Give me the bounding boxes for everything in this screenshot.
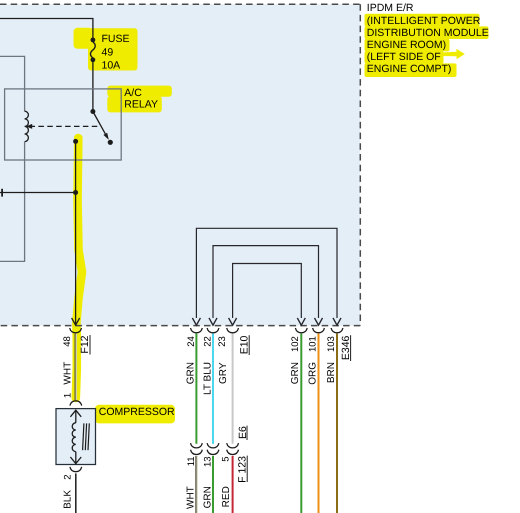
label F12 <box>79 335 91 355</box>
relay linkage (dashed) <box>26 124 99 129</box>
pin 102 <box>290 336 301 352</box>
wire WHT: F12 to compressor pin 1 <box>75 334 76 401</box>
pin 22 <box>202 336 213 347</box>
svg-text:ENGINE ROOM): ENGINE ROOM) <box>367 39 446 51</box>
label WHT <box>186 486 197 509</box>
svg-text:ENGINE COMPT): ENGINE COMPT) <box>367 63 452 75</box>
wire: relay coil return to left <box>0 142 25 262</box>
svg-text:BLK: BLK <box>63 490 74 509</box>
junction node <box>73 190 78 195</box>
wire: supply feed to fuse 49 <box>0 19 93 38</box>
svg-text:DISTRIBUTION MODULE: DISTRIBUTION MODULE <box>367 27 489 39</box>
svg-text:WHT: WHT <box>63 362 74 385</box>
compressor clutch coil <box>72 423 76 452</box>
pin 2 <box>63 475 74 480</box>
label E346 <box>340 335 352 361</box>
relay box (A/C relay) <box>5 89 122 160</box>
svg-text:IPDM E/R: IPDM E/R <box>367 2 414 14</box>
label GRN <box>202 486 213 508</box>
pin 1 <box>63 393 74 398</box>
highlight: A/C RELAY label <box>107 86 172 113</box>
relay switch <box>73 109 113 145</box>
svg-text:22: 22 <box>202 336 213 347</box>
svg-text:5: 5 <box>220 456 231 461</box>
connector E6 <box>191 443 239 448</box>
label ORG <box>307 362 318 385</box>
label FUSE 49 10A <box>102 33 130 72</box>
wire: IPDM trace pin 24 to pin 103 <box>196 228 337 318</box>
diode terminal at left edge <box>1 189 3 197</box>
svg-text:WHT: WHT <box>186 486 197 509</box>
wire: IPDM trace pin 23 to pin 102 <box>233 264 302 319</box>
svg-text:BRN: BRN <box>326 362 337 383</box>
highlight: FUSE label <box>74 28 138 71</box>
wire: relay coil feed from left <box>0 56 25 111</box>
wire ORG (pin 101) <box>318 334 320 513</box>
svg-text:ORG: ORG <box>307 362 318 385</box>
highlight: IPDM description text <box>365 14 489 77</box>
svg-text:GRN: GRN <box>186 362 197 384</box>
svg-text:49: 49 <box>102 46 114 58</box>
wire RED (pin 5) <box>232 456 234 513</box>
arrows into IPDM boundary (pins 24,22,23,102,101,103) <box>192 318 341 325</box>
pin 5 <box>220 456 231 461</box>
svg-text:FUSE: FUSE <box>102 33 130 45</box>
svg-text:48: 48 <box>62 336 73 347</box>
svg-text:101: 101 <box>307 336 318 352</box>
pin 103 <box>326 336 337 352</box>
connector: compressor pin 1 <box>70 401 82 406</box>
IPDM E/R box dashed border <box>0 4 360 325</box>
svg-text:LT BLU: LT BLU <box>202 362 213 395</box>
wire: IPDM trace pin 22 to pin 101 <box>213 246 319 318</box>
svg-text:102: 102 <box>290 336 301 352</box>
label GRN (right) <box>290 362 301 384</box>
pin 11 <box>186 456 197 466</box>
connector: compressor pin 2 <box>70 467 82 472</box>
label GRY <box>218 362 229 384</box>
wire LT BLU (pin 22) <box>212 334 214 444</box>
svg-text:103: 103 <box>326 336 337 352</box>
svg-text:E10: E10 <box>238 335 250 354</box>
wire BRN (pin 103) <box>336 334 338 513</box>
svg-text:2: 2 <box>63 475 74 480</box>
label F 123 <box>236 456 248 483</box>
pin 24 <box>186 336 197 347</box>
svg-text:RED: RED <box>221 486 232 507</box>
svg-text:(INTELLIGENT POWER: (INTELLIGENT POWER <box>367 15 481 27</box>
label A/C RELAY <box>124 87 158 111</box>
pin 48 <box>62 336 73 347</box>
compressor input arrow <box>70 410 81 423</box>
wire GRN (pin 13) <box>212 456 214 513</box>
svg-text:10A: 10A <box>102 60 121 72</box>
label E6 <box>237 426 249 440</box>
arrow into IPDM boundary (pin 48) <box>72 318 80 325</box>
compressor hatch marks <box>83 423 90 450</box>
highlight: COMPRESSOR label <box>95 405 175 424</box>
fuse 49 10A <box>91 38 96 63</box>
highlight: traced wire relay to compressor <box>76 138 82 398</box>
wire WHT (pin 11) <box>196 456 197 513</box>
wire: left edge to junction <box>0 192 76 194</box>
connector E10 <box>191 328 239 333</box>
svg-text:GRN: GRN <box>290 362 301 384</box>
svg-text:RELAY: RELAY <box>124 99 158 111</box>
wire: fuse to relay switch common <box>92 62 94 112</box>
svg-text:F 123: F 123 <box>236 456 248 483</box>
svg-text:24: 24 <box>186 336 197 347</box>
label BLK <box>63 490 74 509</box>
svg-text:F12: F12 <box>79 335 91 353</box>
label E10 <box>238 335 250 355</box>
svg-text:COMPRESSOR: COMPRESSOR <box>99 406 175 418</box>
IPDM E/R module interior fill <box>0 4 360 325</box>
relay coil <box>25 111 29 141</box>
compressor box <box>56 409 96 465</box>
label BRN <box>326 362 337 383</box>
pin 101 <box>307 336 318 352</box>
label COMPRESSOR <box>99 406 175 418</box>
svg-text:GRN: GRN <box>202 486 213 508</box>
connector F12 <box>70 328 82 333</box>
label GRN <box>186 362 197 384</box>
svg-text:1: 1 <box>63 393 74 398</box>
connector F123 <box>191 450 239 455</box>
svg-text:23: 23 <box>217 336 228 347</box>
pin 23 <box>217 336 228 347</box>
wire: relay output down to connector F12 <box>75 141 77 324</box>
label LT BLU <box>202 362 213 395</box>
svg-text:(LEFT SIDE OF: (LEFT SIDE OF <box>367 51 441 63</box>
wire GRN (pin 24) <box>195 334 197 444</box>
pin 13 <box>203 456 214 467</box>
svg-text:A/C: A/C <box>124 87 142 99</box>
highlight: arrow annotation <box>441 49 465 59</box>
svg-text:13: 13 <box>203 456 214 467</box>
svg-text:GRY: GRY <box>218 362 229 384</box>
wire GRN (pin 102) <box>300 334 302 513</box>
connector E346 <box>295 328 343 333</box>
compressor output arrow <box>70 452 81 464</box>
label RED <box>221 486 232 507</box>
wire BLK: compressor to ground <box>75 473 77 513</box>
label WHT <box>63 362 74 385</box>
wire GRY (pin 23) <box>232 334 234 444</box>
label IPDM E/R description <box>367 2 489 75</box>
